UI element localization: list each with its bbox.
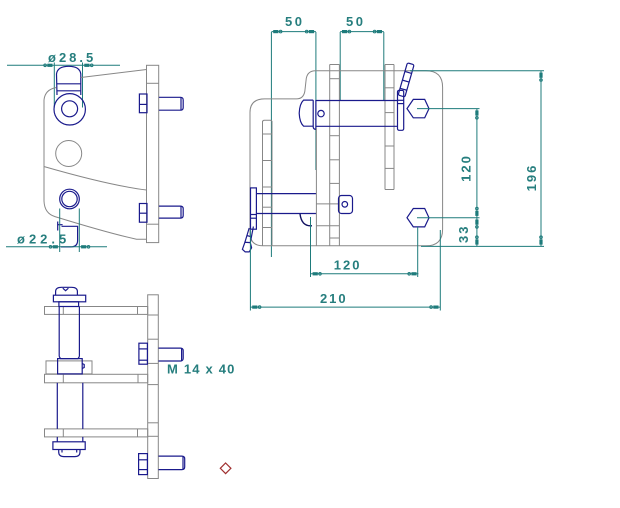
lower bolt V1: [139, 204, 183, 223]
svg-text:50: 50: [346, 14, 365, 29]
svg-text:33: 33: [456, 225, 471, 243]
svg-text:120: 120: [334, 258, 362, 273]
sleeve nut V3: [58, 359, 85, 374]
lower pin body V2: [256, 194, 316, 214]
upper bolt V1: [139, 94, 183, 113]
bar 2 V3 (gray): [45, 374, 148, 383]
washer + nut V3: [53, 442, 85, 457]
lower tube circles V1: [60, 189, 80, 209]
svg-text:M 14 x 40: M 14 x 40: [167, 362, 236, 377]
bushing housing V3 (gray): [46, 361, 92, 374]
hook clip V1: [58, 222, 78, 247]
vertical bolt dome head V3: [53, 287, 85, 306]
svg-text:ø22.5: ø22.5: [17, 232, 70, 247]
upper pin flange V2: [398, 90, 404, 130]
left edge: [43, 100, 45, 201]
middle hole circle V1 (gray): [56, 141, 82, 167]
dim line ø28.5: [7, 63, 120, 108]
lower hex bolt V2: [407, 209, 429, 227]
left bar (bar L) V2: [263, 120, 273, 246]
bottom slanted edge: [55, 217, 147, 240]
arrows 50/50: [273, 30, 382, 33]
upper clip (R-clip) V2: [398, 63, 414, 97]
lower pin end cap V2: [339, 196, 353, 214]
svg-text:50: 50: [285, 14, 304, 29]
mounting plate V1 (gray): [147, 65, 159, 242]
arrows ø28.5: [44, 64, 93, 67]
upper pin hole V2: [318, 110, 324, 116]
svg-text:196: 196: [524, 164, 539, 192]
svg-text:120: 120: [459, 154, 474, 182]
bar B V2: [385, 65, 394, 190]
mid slanted edge: [44, 167, 146, 190]
plate V3 (gray): [148, 295, 159, 479]
top-left fillet arc: [44, 88, 56, 101]
upper pin washer band V2: [313, 100, 316, 129]
plate seam V1: [147, 223, 159, 225]
top slanted edge: [81, 70, 147, 78]
vertical bolt shaft V3: [59, 307, 79, 359]
dim lines 50/50: [271, 32, 383, 257]
boss circle V1: [54, 94, 85, 125]
plate outline V2 (gray, rounded with top-left step): [250, 71, 443, 246]
lower clip (R-clip) V2: [242, 227, 253, 252]
arrows ø22.5: [49, 245, 90, 248]
lower pin flange V2: [251, 188, 257, 229]
upper right bolt V3: [139, 343, 183, 364]
svg-text:210: 210: [320, 291, 348, 306]
upper hex bolt V2: [407, 99, 429, 117]
lug (shackle eye) V1: [57, 66, 81, 95]
lower tube V3: [57, 383, 83, 442]
body outline V1 (gray): [44, 70, 147, 240]
slot edge behind lower pin V2 (gray): [316, 128, 339, 246]
bar 1 V3 (gray): [45, 307, 148, 315]
upper pin hex head V2: [299, 100, 313, 126]
lower pin latch tab V2: [300, 214, 312, 226]
bar 3 V3 (gray): [45, 429, 148, 437]
red diamond marker: [220, 463, 231, 474]
upper pin body V2: [316, 101, 398, 127]
lower right bolt V3: [139, 454, 185, 475]
svg-text:ø28.5: ø28.5: [48, 50, 96, 65]
hole circle V1: [62, 101, 78, 117]
bar A V2: [330, 65, 340, 246]
bottom-left arc: [44, 201, 55, 217]
dim lines ø22.5: [6, 209, 107, 253]
